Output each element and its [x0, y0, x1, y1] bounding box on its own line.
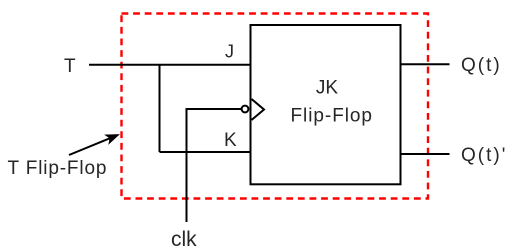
svg-text:T: T — [64, 56, 76, 77]
svg-text:Q(t): Q(t) — [461, 55, 502, 76]
svg-text:J: J — [225, 42, 234, 62]
svg-text:Q(t)': Q(t)' — [461, 145, 507, 166]
svg-text:T Flip-Flop: T Flip-Flop — [8, 158, 108, 179]
svg-text:JK: JK — [316, 78, 339, 99]
svg-text:clk: clk — [171, 228, 197, 251]
svg-text:Flip-Flop: Flip-Flop — [291, 106, 373, 127]
svg-text:K: K — [224, 130, 237, 151]
